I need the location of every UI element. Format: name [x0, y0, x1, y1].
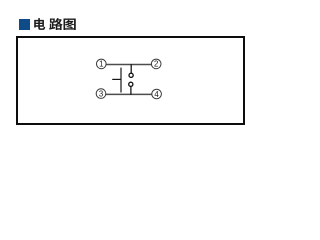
contact stub lower: [130, 86, 132, 95]
svg-text:2: 2: [154, 60, 158, 69]
svg-text:3: 3: [99, 89, 103, 98]
terminal pin 2: [151, 59, 161, 69]
svg-text:4: 4: [154, 90, 159, 99]
svg-text:1: 1: [99, 60, 103, 69]
terminal pin 3: [96, 89, 106, 99]
title text 电路图 (drawn as glyph outlines): [0, 0, 281, 133]
wire pin3-pin4: [106, 93, 153, 95]
fixed contact upper: [129, 73, 133, 77]
fixed contact lower: [129, 82, 133, 86]
circuit drawing: [0, 0, 281, 133]
schematic frame box: [16, 36, 245, 125]
terminal pin 1: [97, 59, 107, 69]
terminal pin 4: [152, 89, 162, 99]
title bullet square: [19, 19, 31, 30]
actuator shaft: [112, 78, 121, 80]
contact stub upper: [130, 64, 132, 73]
wire pin1-pin2: [106, 64, 152, 66]
actuator plunger bar: [120, 68, 122, 93]
